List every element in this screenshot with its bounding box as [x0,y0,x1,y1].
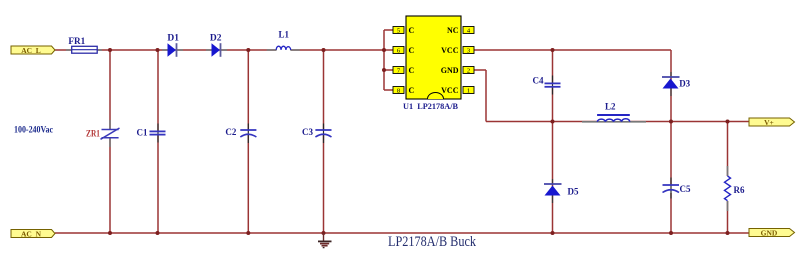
resistor R6 [725,166,745,211]
svg-text:D2: D2 [210,33,222,43]
svg-text:C5: C5 [680,184,691,194]
ground [318,233,332,248]
junction dots top rail [108,48,555,72]
wire vertical C4 column [552,50,554,122]
inductor L2 [582,102,646,122]
wire pin3 VCC to D3 [473,49,671,51]
svg-text:AC_N: AC_N [21,230,42,239]
inductor L1 [267,30,300,50]
svg-text:C: C [409,66,415,75]
svg-text:GND: GND [441,66,459,75]
svg-text:AC_L: AC_L [21,46,41,55]
capacitor C4 [533,75,561,94]
port V+ [749,118,795,127]
port AC_L [11,46,55,55]
wire vertical C2 column [247,50,249,233]
svg-text:C: C [409,46,415,55]
svg-text:C3: C3 [302,127,313,137]
diode D2 [206,33,227,57]
svg-text:LP2178A/B Buck: LP2178A/B Buck [388,234,477,250]
svg-text:1: 1 [467,88,470,95]
svg-text:GND: GND [761,229,778,238]
svg-text:C: C [409,86,415,95]
svg-text:U1 LP2178A/B: U1 LP2178A/B [403,101,458,111]
svg-text:L1: L1 [278,30,289,40]
svg-text:R6: R6 [734,185,745,195]
capacitor C2 [225,124,256,144]
svg-text:D1: D1 [167,33,179,43]
wire top AC_L to chip bus [55,49,276,51]
svg-text:C4: C4 [533,75,544,85]
junction dots middle rail [551,120,730,124]
pin 5 [393,26,415,35]
wire bottom AC_N to GND [55,232,749,234]
wire pin2 GND down [473,70,486,122]
capacitor C3 [302,124,332,144]
wire middle output rail [486,121,749,123]
IC U1 LP2178A/B [393,16,474,111]
svg-text:2: 2 [467,68,470,75]
svg-text:NC: NC [447,26,459,35]
wire vertical C3 column [323,50,325,233]
wire vertical D5 column [552,122,554,234]
svg-text:L2: L2 [605,102,616,112]
diode D5 [544,179,579,203]
svg-text:VCC: VCC [441,86,459,95]
pin 2 GND [441,66,474,75]
svg-text:C: C [409,26,415,35]
pin 3 VCC [441,46,474,55]
svg-text:D3: D3 [679,78,690,88]
pin 1 VCC [441,86,474,95]
svg-text:ZR1: ZR1 [86,128,100,138]
svg-text:C2: C2 [225,127,236,137]
wire chip left bus [384,30,393,90]
diode D1 [162,33,183,57]
svg-text:8: 8 [397,88,400,95]
svg-text:3: 3 [467,48,470,55]
capacitor C1 [137,124,166,143]
svg-text:FR1: FR1 [68,36,85,46]
pin 8 [393,86,415,95]
capacitor C5 [663,178,691,199]
pin 6 [393,46,415,55]
wire vertical D3 column [670,50,672,122]
svg-text:VCC: VCC [441,46,459,55]
svg-text:5: 5 [397,28,400,35]
port GND [749,229,795,238]
pin 7 [393,66,415,75]
port AC_N [11,230,55,239]
wire vertical ZR1 column [109,50,111,233]
pin 4 NC [447,26,474,35]
fuse FR1 [66,36,102,53]
junction dots bottom rail [108,231,730,235]
svg-text:C1: C1 [137,127,148,137]
varistor ZR1 [86,120,120,147]
wire vertical C5 column [670,122,672,234]
diode D3 [662,72,691,96]
svg-text:D5: D5 [568,186,579,196]
wire vertical R6 column [727,122,729,234]
svg-text:100-240Vac: 100-240Vac [14,126,53,136]
svg-text:V+: V+ [764,118,774,127]
wire vertical C1 column [157,50,159,233]
